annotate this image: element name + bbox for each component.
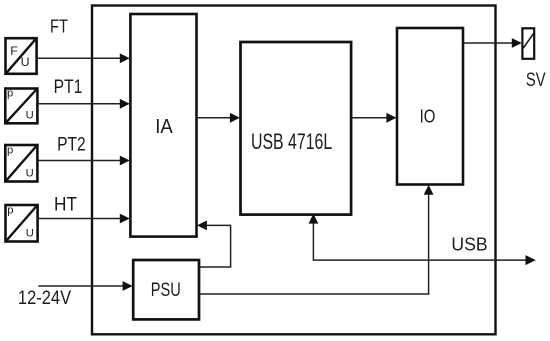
svg-text:U: U xyxy=(21,55,30,69)
svg-text:PT1: PT1 xyxy=(54,77,83,98)
svg-text:USB 4716L: USB 4716L xyxy=(251,129,332,154)
svg-text:PT2: PT2 xyxy=(57,135,86,156)
svg-text:12-24V: 12-24V xyxy=(18,287,71,309)
wire IA to USB 4716L xyxy=(197,117,235,119)
svg-text:FT: FT xyxy=(50,15,68,36)
wire PT2 to IA xyxy=(37,160,124,162)
svg-text:p: p xyxy=(7,205,13,217)
svg-text:U: U xyxy=(26,228,34,240)
sensor HT xyxy=(6,205,38,242)
svg-text:IA: IA xyxy=(155,116,173,138)
sensor PT2 xyxy=(5,145,37,182)
wire PSU to IO xyxy=(199,193,429,294)
block SV xyxy=(522,28,534,59)
wire FT to IA xyxy=(37,57,124,59)
wire USB data (USB 4716L to external USB) xyxy=(313,222,526,260)
block IA xyxy=(130,14,196,237)
wire IO to SV xyxy=(463,42,516,44)
block PSU xyxy=(133,260,199,319)
wire 12-24V to PSU xyxy=(38,285,127,287)
wire PSU feedback to IA xyxy=(199,225,231,267)
sensor FT xyxy=(6,38,37,74)
svg-text:p: p xyxy=(7,88,13,100)
svg-text:PSU: PSU xyxy=(151,280,181,301)
svg-text:SV: SV xyxy=(526,69,546,91)
svg-text:HT: HT xyxy=(54,194,77,215)
svg-text:IO: IO xyxy=(420,106,436,126)
wire HT to IA xyxy=(38,218,124,220)
svg-text:U: U xyxy=(26,168,34,180)
svg-text:F: F xyxy=(10,44,18,58)
block USB 4716L xyxy=(241,42,352,215)
svg-text:p: p xyxy=(7,145,13,157)
outer border xyxy=(92,6,496,335)
svg-text:USB: USB xyxy=(451,234,487,255)
sensor PT1 xyxy=(5,88,37,124)
block IO xyxy=(397,28,463,185)
wire USB 4716L to IO xyxy=(351,117,391,119)
svg-text:U: U xyxy=(26,109,34,121)
wire PT1 to IA xyxy=(37,103,124,105)
